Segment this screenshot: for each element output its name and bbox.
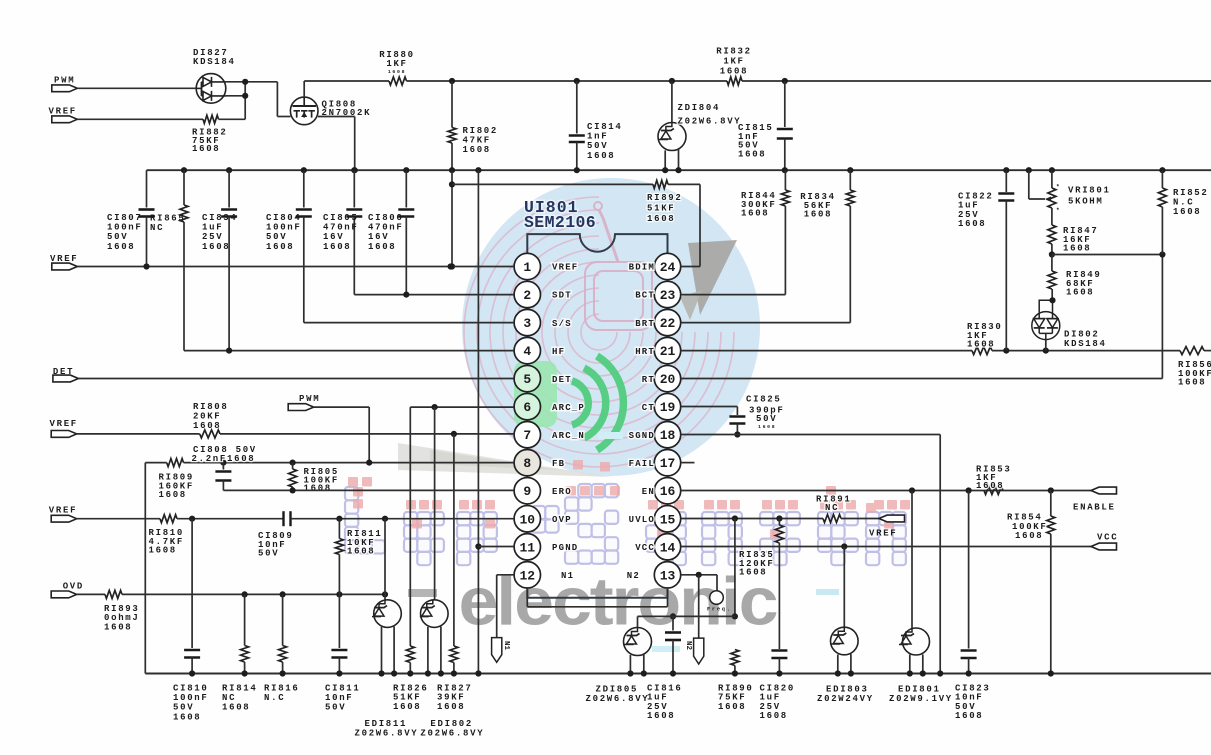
svg-text:1608: 1608 [149, 546, 177, 556]
node PWM input flag (row2) [288, 404, 314, 411]
wire bottom gnd bus [145, 673, 1211, 675]
svg-text:OVP: OVP [552, 515, 572, 525]
svg-text:10: 10 [519, 512, 535, 527]
wire BDIM pin24 stub [681, 266, 700, 268]
svg-text:Z02W6.8VY: Z02W6.8VY [678, 116, 742, 126]
capacitor CI805 470nF [346, 208, 362, 211]
node N2 output arrow [694, 638, 704, 664]
capacitor CI834 1uF [221, 208, 237, 211]
svg-text:SDT: SDT [552, 291, 572, 301]
svg-text:1608: 1608 [192, 144, 220, 154]
svg-text:12: 12 [519, 568, 535, 583]
svg-text:OVD: OVD [63, 582, 84, 592]
svg-text:11: 11 [519, 540, 535, 555]
wire RI810 to CI809 [177, 518, 284, 520]
wire left gnd drop x145 [144, 463, 146, 674]
wire RI808 to pin7 ARC_N [220, 433, 514, 435]
svg-text:CI825: CI825 [746, 395, 782, 405]
wire OVD to RI893 [77, 593, 105, 595]
resistor RI890 75KF [731, 650, 739, 666]
node VREF right flag [879, 515, 905, 522]
svg-text:VREF: VREF [869, 529, 897, 539]
svg-text:10nF: 10nF [325, 693, 353, 703]
wire RI844 bottom to BCT [784, 206, 786, 295]
wire FAIL pin17 stub [681, 462, 695, 464]
wire HF pin4 line [184, 350, 514, 352]
wire RI890 bottom [734, 666, 736, 674]
svg-text:Freq.: Freq. [707, 607, 732, 613]
wire CI825 top [736, 407, 738, 416]
svg-text:1608: 1608 [388, 69, 406, 75]
wire VREF3 to RI808 [77, 433, 200, 435]
wire BCT pin23 line [681, 294, 786, 296]
svg-text:1: 1 [523, 260, 531, 275]
resistor RI805 100KF [289, 469, 297, 487]
svg-text:FAIL: FAIL [629, 459, 655, 469]
wire CI805 top [353, 170, 355, 207]
wire to Freq circle [716, 575, 718, 591]
svg-text:BDIM: BDIM [629, 263, 655, 273]
wire RI805 bottom [292, 487, 294, 490]
wire RT pin20 line [681, 378, 1163, 380]
svg-text:51KF: 51KF [647, 204, 675, 214]
svg-text:6: 6 [523, 400, 531, 415]
svg-text:1608: 1608 [104, 622, 132, 632]
wire RI844 top [784, 170, 786, 190]
wire EDI803 leg2 [850, 654, 852, 674]
svg-text:CI811: CI811 [325, 684, 361, 694]
zener EDI802 Z02W6.8VY [420, 600, 448, 628]
wire VRI801 to RI847 [1051, 208, 1053, 225]
resistor RI849 68KF [1048, 271, 1056, 289]
svg-text:1608: 1608 [804, 210, 832, 220]
wire RI802 line down to VREF rail [451, 170, 453, 266]
svg-text:1608: 1608 [967, 340, 995, 350]
wire FB line left seg [145, 462, 166, 464]
node VREF input flag (pin1 rail) [52, 263, 78, 270]
svg-text:50V: 50V [756, 414, 777, 424]
wire pin13 bottom [667, 588, 669, 607]
svg-text:RI802: RI802 [463, 126, 499, 136]
resistor RI816 N.C [279, 646, 287, 663]
svg-text:SEM2106: SEM2106 [524, 213, 596, 232]
svg-text:16: 16 [660, 484, 676, 499]
svg-text:CI806: CI806 [368, 213, 404, 223]
watermark antenna wedge [688, 240, 737, 315]
svg-text:1nF: 1nF [587, 132, 608, 142]
wire DI802 leg [1045, 340, 1047, 351]
resistor RI853 1KF [984, 487, 1003, 495]
node DET input flag [53, 375, 79, 382]
svg-text:S/S: S/S [552, 319, 572, 329]
svg-text:CI807: CI807 [107, 213, 143, 223]
wire source down to bus [354, 117, 356, 171]
resistor RI882 75KF [203, 115, 219, 123]
wire VRI801 wiper drop [1028, 170, 1030, 199]
wire CI804 bottom to S/S [303, 217, 305, 323]
wire top rail seg2 [407, 80, 728, 82]
svg-text:22: 22 [660, 316, 676, 331]
watermark pink swirls [464, 197, 734, 467]
wire EDI801 top lead [911, 491, 913, 629]
wire down to EDI802 [434, 407, 436, 600]
svg-text:VREF: VREF [49, 506, 77, 516]
svg-text:4: 4 [523, 344, 531, 359]
svg-text:24: 24 [660, 260, 676, 275]
capacitor CI822 1uF [998, 192, 1014, 195]
wire CI822 top [1005, 170, 1007, 192]
svg-text:CI804: CI804 [266, 213, 302, 223]
resistor RI844 300KF [781, 190, 789, 206]
wire ZDI805 top lead [637, 616, 639, 628]
wire top rail seg3 [742, 80, 1211, 82]
node VREF input flag (row3) [51, 431, 77, 438]
svg-text:ARC_P: ARC_P [552, 403, 585, 413]
wire N1-N2 link [527, 606, 667, 608]
svg-text:HRT: HRT [635, 347, 655, 357]
svg-text:N2: N2 [627, 571, 640, 581]
wire RI893 to EDI811 drop [122, 593, 385, 595]
svg-text:2.2nF1608: 2.2nF1608 [192, 454, 256, 464]
svg-text:KDS184: KDS184 [193, 57, 236, 67]
svg-text:25V: 25V [202, 232, 223, 242]
capacitor CI808 2.2nF [215, 470, 231, 473]
resistor RI830 1KF [972, 347, 992, 355]
svg-text:7: 7 [523, 428, 531, 443]
transistor QI808 2N7002K [290, 97, 318, 125]
svg-text:1608: 1608 [587, 151, 615, 161]
wire pin7 down to RI827 [453, 434, 455, 646]
svg-text:N1: N1 [561, 571, 574, 581]
svg-text:SGND: SGND [629, 431, 655, 441]
svg-text:1608: 1608 [323, 242, 351, 252]
svg-text:Z02W6.8VY: Z02W6.8VY [420, 728, 484, 738]
svg-text:BRT: BRT [635, 319, 655, 329]
wire SGND pin18 line [681, 434, 941, 436]
svg-text:1608: 1608 [159, 490, 187, 500]
svg-text:CI834: CI834 [202, 213, 238, 223]
node ENABLE flag [1091, 487, 1117, 494]
svg-text:1608: 1608 [955, 711, 983, 721]
wire CI807 top [146, 170, 148, 207]
node VCC flag [1091, 543, 1117, 550]
svg-text:13: 13 [660, 568, 676, 583]
zener EDI811 Z02W6.8VY [372, 600, 401, 628]
wire RI854 down to gnd [1050, 534, 1052, 674]
svg-text:1608: 1608 [266, 242, 294, 252]
wire EDI802 leg2 [440, 627, 442, 674]
wire VREF4 to RI810 [77, 518, 160, 520]
wire S/S pin3 line [304, 322, 514, 324]
svg-text:50V: 50V [173, 703, 194, 713]
svg-text:100nF: 100nF [266, 223, 302, 233]
resistor RI827 39KF [450, 646, 458, 663]
svg-text:CI810: CI810 [173, 684, 209, 694]
wire BRT pin22 line [681, 322, 851, 324]
svg-text:CI814: CI814 [587, 122, 623, 132]
wire UVLO drop x735 [734, 519, 736, 617]
node VREF input flag (row2) [52, 116, 78, 123]
svg-text:1608: 1608 [368, 242, 396, 252]
wire pin12 left [497, 574, 514, 576]
capacitor CI811 10nF [331, 649, 347, 652]
svg-text:1608: 1608 [741, 209, 769, 219]
svg-text:1uF: 1uF [202, 223, 223, 233]
wire RI816 bottom [282, 662, 284, 674]
wire CI810 drop [191, 519, 193, 648]
resistor RI892 51KF [653, 180, 668, 188]
resistor VRI801 body [1048, 188, 1056, 208]
wire RI891 to VREF flag [841, 518, 879, 520]
svg-text:18: 18 [660, 428, 676, 443]
resistor RI832 1KF [727, 77, 742, 85]
wire HRT mid seg [992, 350, 1180, 352]
node PWM input flag [52, 85, 78, 92]
wire top rail seg1 [304, 80, 389, 82]
wire CI814 top [576, 81, 578, 134]
zener EDI803 Z02W24VY [831, 627, 859, 655]
svg-text:CT: CT [642, 403, 655, 413]
wire CI807 bottom [146, 217, 148, 267]
svg-text:9: 9 [523, 484, 531, 499]
svg-text:N.C: N.C [264, 693, 285, 703]
svg-text:1608: 1608 [1015, 531, 1043, 541]
wire divider link [1052, 254, 1163, 256]
wire RI802 top [451, 81, 453, 128]
wire to QI808 gate [277, 116, 290, 118]
resistor RI811 10KF [335, 539, 343, 555]
wire vertical tie [244, 82, 246, 120]
wire RI816 top [282, 594, 284, 645]
svg-text:1608: 1608 [760, 711, 788, 721]
svg-text:16V: 16V [368, 232, 389, 242]
resistor RI809 160KF [167, 459, 184, 467]
wire EDI811 leg2 [393, 627, 395, 674]
wire EDI801 leg1 [909, 655, 911, 674]
svg-text:1608: 1608 [202, 242, 230, 252]
resistor RI810 4.7KF [160, 515, 177, 523]
wire QI808 drain up [303, 81, 305, 97]
wire CI834 top [228, 170, 230, 207]
svg-text:50V: 50V [587, 141, 608, 151]
wire CI823 bottom [968, 658, 970, 674]
svg-text:Z02W24VY: Z02W24VY [817, 694, 874, 704]
wire CI808 bottom [222, 481, 224, 491]
svg-text:1608: 1608 [437, 702, 465, 712]
wire CI834 bottom [228, 217, 230, 351]
svg-text:1608: 1608 [958, 219, 986, 229]
wire HRT pin21 line [681, 350, 972, 352]
svg-text:N2: N2 [684, 641, 692, 651]
capacitor CI804 100nF [296, 208, 312, 211]
zener EDI801 Z02W9.1VY [899, 628, 930, 655]
wire CI805 bottom to SDT [353, 217, 355, 295]
wire DET to pin5 [78, 378, 514, 380]
watermark logo disc [462, 178, 760, 476]
capacitor CI825 390pF [729, 415, 745, 418]
svg-text:UVLO: UVLO [629, 515, 655, 525]
svg-text:1608: 1608 [720, 67, 748, 77]
resistor RI865 NC [180, 205, 188, 222]
resistor RI834 56KF [846, 190, 854, 206]
svg-text:5: 5 [523, 372, 531, 387]
svg-text:21: 21 [660, 344, 676, 359]
ic UI801 SEM2106 body [527, 234, 667, 598]
resistor RI826 51KF [406, 646, 414, 663]
wire CI823 top [968, 491, 970, 649]
wire ARC_P pin6 line [410, 406, 514, 408]
wire EDI803 top lead [843, 547, 845, 629]
wire ZDI805 leg1 [629, 655, 631, 674]
wire EDI811 top lead [384, 519, 386, 600]
svg-text:DET: DET [53, 367, 74, 377]
svg-text:1KF: 1KF [723, 57, 744, 67]
wire VREF rail to pin1 [77, 266, 514, 268]
wire ZDI804 leg2 [678, 150, 680, 171]
diode DI802 KDS184 bracket [1039, 300, 1052, 318]
wire RI852 bottom [1161, 207, 1163, 255]
capacitor CI809 10nF (series) [282, 511, 284, 526]
wire N2 arrow drop [698, 575, 700, 638]
svg-text:CI805: CI805 [323, 213, 359, 223]
zener ZDI804 Z02W6.8VY [658, 123, 686, 151]
svg-text:VCC: VCC [635, 543, 655, 553]
svg-text:3: 3 [523, 316, 531, 331]
wire RI849 top [1051, 255, 1053, 272]
wire N1 arrow drop [496, 575, 498, 638]
wire ZDI804 top lead [671, 81, 673, 123]
svg-text:1KF: 1KF [386, 59, 407, 69]
svg-text:ARC_N: ARC_N [552, 431, 585, 441]
wire CI816 top [672, 616, 674, 630]
resistor RI847 16KF [1048, 225, 1056, 244]
svg-text:N1: N1 [502, 641, 510, 651]
wire EDI801 leg2 [922, 655, 924, 674]
wire pin6 corner down to RI826 [409, 407, 411, 646]
node OVD input flag [51, 591, 77, 598]
wire SDT pin2 line [354, 294, 514, 296]
svg-text:1608: 1608 [173, 712, 201, 722]
wire DI827 top out [226, 81, 246, 83]
resistor RI891 NC [823, 515, 841, 523]
wire DI827 bottom out [226, 95, 246, 97]
svg-text:DET: DET [552, 375, 572, 385]
svg-text:1608: 1608 [193, 421, 221, 431]
wire RI835 to CI820 [778, 543, 780, 649]
wire QI808 source right [318, 116, 355, 118]
svg-text:VREF: VREF [50, 254, 78, 264]
wire PWM2 down [368, 407, 370, 463]
svg-text:470nF: 470nF [323, 223, 359, 233]
svg-text:1608: 1608 [718, 702, 746, 712]
wire CI825 bottom [736, 424, 738, 435]
svg-text:100nF: 100nF [107, 223, 143, 233]
capacitor CI820 1uF [771, 649, 787, 652]
svg-text:1608: 1608 [393, 702, 421, 712]
diode DI827 KDS184 [196, 74, 226, 104]
wire CI806 bottom to SDT [405, 217, 407, 295]
wire RI865 bottom to HF line [183, 222, 185, 351]
svg-text:VCC: VCC [1097, 533, 1118, 543]
wire pin12 bottom [526, 588, 528, 607]
svg-text:19: 19 [660, 400, 676, 415]
svg-text:Z02W6.8VY: Z02W6.8VY [586, 694, 650, 704]
wire vertical bus-to-bus x478 [477, 170, 479, 673]
svg-text:5KOHM: 5KOHM [1068, 197, 1104, 207]
resistor RI856 100KF [1180, 347, 1204, 355]
node N1 output arrow [492, 638, 502, 663]
wire pin13 right [681, 574, 717, 576]
svg-text:Z02W6.8VY: Z02W6.8VY [355, 728, 419, 738]
svg-text:RI832: RI832 [716, 47, 752, 57]
wire RI892 left seg [452, 183, 653, 185]
resistor RI814 NC [241, 646, 249, 663]
svg-text:1608: 1608 [758, 424, 776, 430]
wire RI834 top [849, 170, 851, 190]
wire RI814 top [244, 594, 246, 645]
svg-text:*: * [1056, 184, 1061, 191]
svg-text:RI892: RI892 [647, 193, 683, 203]
node Freq test point [710, 591, 724, 605]
svg-text:1608: 1608 [347, 547, 375, 557]
svg-text:14: 14 [660, 540, 676, 555]
svg-text:VREF: VREF [49, 107, 77, 117]
wire CI811 bottom [338, 658, 340, 674]
svg-text:RI808: RI808 [193, 402, 229, 412]
wire RI834 bottom to BRT [849, 206, 851, 323]
svg-text:1608: 1608 [1066, 288, 1094, 298]
wire ZDI804 leg1 [664, 150, 666, 170]
svg-text:KDS184: KDS184 [1064, 339, 1107, 349]
svg-text:Z02W9.1VY: Z02W9.1VY [889, 694, 953, 704]
svg-text:VRI801: VRI801 [1068, 186, 1111, 196]
wire gate corner down [276, 82, 278, 117]
wire VCC pin14 line [681, 546, 1091, 548]
wire RI827 bottom [453, 663, 455, 674]
wire RI835 top [778, 519, 780, 526]
node VREF input flag (row4) [51, 515, 77, 522]
svg-text:1608: 1608 [222, 703, 250, 713]
wire EDI811 leg1 [381, 627, 383, 674]
capacitor CI814 1nF [569, 134, 585, 137]
wire PGND pin11 stub [478, 546, 514, 548]
svg-text:20KF: 20KF [193, 412, 221, 422]
wire RI854 top [1050, 491, 1052, 517]
wire RI847 bottom [1051, 244, 1053, 255]
wire EN pin16 line [681, 490, 1091, 492]
wire RI805 top [292, 463, 294, 469]
svg-text:BCT: BCT [635, 291, 655, 301]
svg-text:ERO: ERO [552, 487, 572, 497]
wire zener link [638, 615, 735, 617]
svg-text:15: 15 [660, 512, 676, 527]
watermark pixel text Leo Sanzen [345, 487, 385, 554]
svg-text:EN: EN [642, 487, 655, 497]
wire FB line to pin8 [184, 462, 515, 464]
svg-text:8: 8 [523, 456, 531, 471]
wire PWM to DI827 [77, 87, 196, 89]
svg-text:1608: 1608 [107, 242, 135, 252]
svg-text:VREF: VREF [50, 419, 78, 429]
wire HRT to edge [1204, 350, 1211, 352]
svg-text:1608: 1608 [647, 711, 675, 721]
wire EDI802 leg1 [427, 627, 429, 674]
watermark red pixels [348, 460, 910, 539]
svg-text:1608: 1608 [1173, 207, 1201, 217]
wire PWM2 right [314, 406, 370, 408]
wire CI815 bottom [784, 139, 786, 171]
wire CI814 bottom [576, 142, 578, 170]
